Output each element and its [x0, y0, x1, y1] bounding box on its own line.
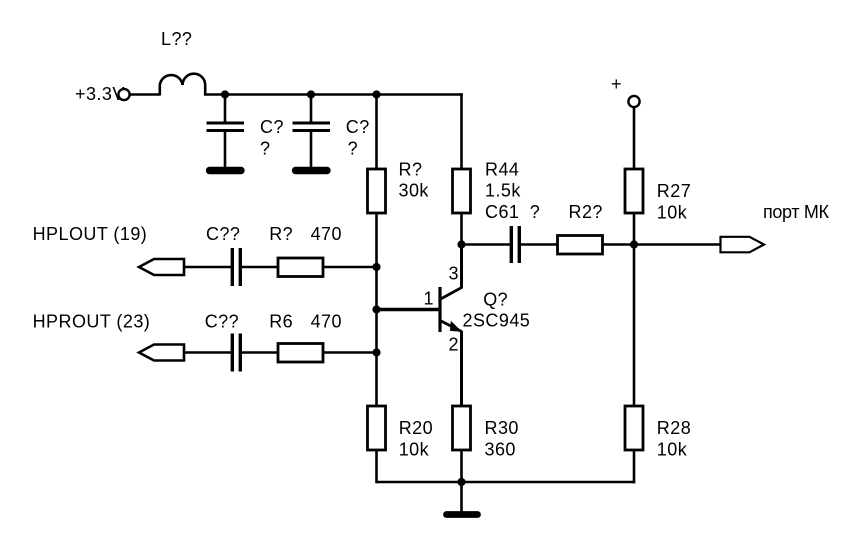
svg-text:360: 360	[485, 439, 516, 459]
label + (positive supply)	[611, 74, 622, 94]
svg-text:C??: C??	[206, 224, 240, 244]
svg-text:30k: 30k	[399, 181, 430, 201]
wire C?? to R? 470	[242, 266, 279, 269]
input terminal HPLOUT	[139, 259, 184, 275]
wire + terminal to R27	[633, 107, 636, 170]
wire HPROUT terminal to C??	[184, 351, 231, 354]
wire top rail down to R44	[460, 93, 463, 170]
output terminal порт МК	[721, 237, 765, 253]
wire ground stub	[460, 482, 463, 512]
svg-text:?: ?	[260, 138, 270, 158]
label C? ? (first)	[260, 117, 284, 158]
svg-text:R44: R44	[485, 159, 519, 179]
wire base junction to transistor base	[377, 308, 440, 311]
node HPLOUT junction	[372, 263, 380, 271]
svg-text:C61: C61	[485, 202, 519, 222]
label Q? 2SC945	[463, 290, 531, 331]
wire HPLOUT terminal to C??	[184, 266, 231, 269]
svg-text:R28: R28	[657, 418, 691, 438]
svg-text:R6: R6	[269, 311, 293, 331]
label R2?	[569, 202, 603, 222]
svg-text:C?: C?	[260, 117, 284, 137]
label порт МК	[763, 202, 830, 222]
ground (below C2)	[296, 167, 328, 174]
label pin 1	[424, 289, 434, 309]
svg-text:HPLOUT (19): HPLOUT (19)	[33, 224, 148, 244]
label R30 360	[485, 418, 519, 459]
svg-text:L??: L??	[161, 29, 192, 49]
wire top rail	[204, 93, 463, 96]
svg-text:C?: C?	[346, 117, 370, 137]
label R6 470	[269, 311, 342, 331]
svg-text:470: 470	[311, 311, 342, 331]
label pin 2	[449, 335, 459, 355]
resistor R28	[625, 406, 643, 450]
wire node down to R28	[633, 245, 636, 408]
wire C?? to R6 470	[242, 351, 279, 354]
svg-text:470: 470	[311, 224, 342, 244]
node ground rail	[457, 478, 465, 486]
svg-text:Q?: Q?	[483, 290, 508, 310]
node HPROUT junction	[372, 348, 380, 356]
svg-text:C??: C??	[205, 311, 239, 331]
svg-text:R?: R?	[269, 224, 293, 244]
label +3.3V	[75, 84, 125, 104]
svg-text:1: 1	[424, 289, 434, 309]
resistor R44	[453, 169, 471, 213]
label R? 470	[269, 224, 342, 244]
label R44 1.5k C61 ?	[485, 159, 540, 222]
svg-text:?: ?	[530, 202, 540, 222]
resistor R20	[368, 406, 386, 450]
svg-text:R?: R?	[399, 159, 423, 179]
svg-text:R2?: R2?	[569, 202, 603, 222]
wire R2? to output terminal	[603, 243, 721, 246]
svg-text:порт МК: порт МК	[763, 202, 830, 222]
wire +3.3V terminal to inductor	[130, 93, 160, 96]
resistor R27	[625, 169, 643, 213]
node base junction	[372, 305, 380, 313]
svg-text:2: 2	[449, 335, 459, 355]
inductor L??	[160, 74, 205, 96]
node top rail at R? 30k	[372, 90, 380, 98]
label HPLOUT (19)	[33, 224, 148, 244]
resistor R2?	[558, 236, 603, 255]
label R28 10k	[657, 418, 691, 459]
transistor Q? 2SC945	[440, 246, 462, 407]
capacitor C? (first, plates)	[207, 123, 245, 131]
svg-text:R27: R27	[657, 181, 691, 201]
svg-text:3: 3	[449, 264, 459, 284]
label L??	[161, 29, 192, 49]
capacitor C? (second, plates)	[293, 123, 331, 131]
svg-text:?: ?	[348, 138, 358, 158]
capacitor C?? (HPROUT, plates)	[232, 334, 240, 372]
wire R28 bottom to ground rail	[377, 450, 636, 483]
label R20 10k	[399, 418, 433, 459]
resistor R30	[453, 406, 471, 450]
resistor R? 470 (HPLOUT)	[278, 258, 323, 277]
svg-text:10k: 10k	[657, 203, 688, 223]
svg-text:10k: 10k	[657, 439, 688, 459]
wire R? 30k bottom to base column	[375, 213, 378, 407]
label C?? (HPLOUT)	[206, 224, 240, 244]
wire R27 bottom to node	[633, 213, 636, 245]
node collector / C61	[457, 240, 465, 248]
label C? ? (second)	[346, 117, 370, 158]
svg-text:+: +	[611, 74, 622, 94]
wire R? 470 to base column	[323, 266, 378, 269]
ground (below C1)	[210, 167, 242, 174]
node top rail at C2	[307, 90, 315, 98]
wire C61 to R2?	[521, 243, 558, 246]
svg-text:10k: 10k	[399, 439, 430, 459]
svg-text:R30: R30	[485, 418, 519, 438]
wire R30 bottom to ground rail	[460, 450, 463, 482]
svg-text:1.5k: 1.5k	[485, 181, 521, 201]
resistor R? 30k	[368, 169, 386, 213]
label pin 3	[449, 264, 459, 284]
power terminal +3.3V	[118, 89, 129, 100]
wire collector node to C61	[462, 243, 510, 246]
input terminal HPROUT	[139, 345, 184, 361]
label C?? (HPROUT)	[205, 311, 239, 331]
svg-text:HPROUT (23): HPROUT (23)	[33, 311, 151, 331]
node top rail at C1	[221, 90, 229, 98]
svg-text:2SC945: 2SC945	[463, 311, 531, 331]
wire R6 470 to base column	[323, 351, 378, 354]
wire top rail down to R? 30k	[375, 95, 378, 171]
ground (main)	[447, 511, 478, 518]
label R? 30k	[399, 159, 430, 200]
wire R20 bottom to ground rail	[375, 450, 378, 483]
wire C1 bottom lead	[224, 132, 227, 167]
wire C2 bottom lead	[310, 132, 313, 167]
label R27 10k	[657, 181, 691, 223]
wire R44 bottom to collector node	[460, 213, 463, 245]
resistor R6 470 (HPROUT)	[278, 344, 323, 363]
power terminal +	[628, 96, 639, 107]
label HPROUT (23)	[33, 311, 151, 331]
node R27 / output	[630, 240, 638, 248]
wire C1 top lead	[224, 95, 227, 122]
wire C2 top lead	[310, 95, 313, 122]
svg-text:R20: R20	[399, 418, 433, 438]
capacitor C61 (plates)	[511, 226, 519, 263]
capacitor C?? (HPLOUT, plates)	[232, 248, 240, 286]
